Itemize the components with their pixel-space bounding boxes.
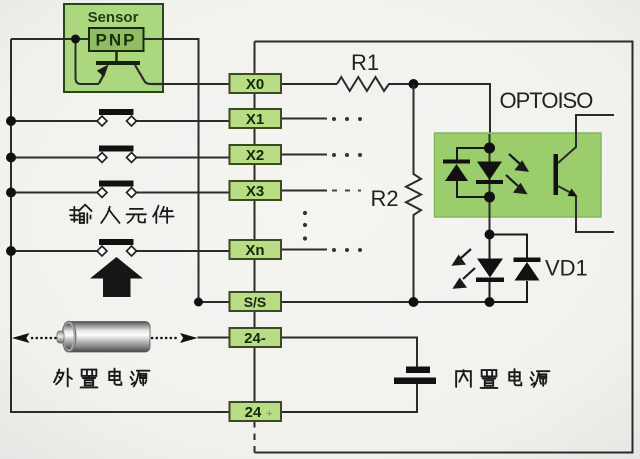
diode VD1 xyxy=(490,235,541,303)
svg-text:R1: R1 xyxy=(351,50,379,75)
node opto bottom xyxy=(484,192,495,203)
terminal box X3 xyxy=(230,181,282,200)
svg-text:OPTOISO: OPTOISO xyxy=(500,88,594,113)
terminal box Xn xyxy=(230,240,282,259)
wire X1 dots xyxy=(332,117,362,121)
node rail X2 xyxy=(6,153,16,163)
switch Sn Xn row xyxy=(11,239,230,256)
transistor Q1 sensor PNP xyxy=(96,50,163,84)
svg-text:+: + xyxy=(266,408,272,420)
wire R1 junction to optocoupler xyxy=(414,84,491,134)
svg-text:X3: X3 xyxy=(246,183,264,200)
label 内置电源 xyxy=(456,369,549,388)
wire PNP output to S/S rail xyxy=(144,39,230,302)
wire opto led branch xyxy=(489,134,491,235)
wire 24- row right to battery xyxy=(281,338,417,368)
LED light arrows xyxy=(454,249,476,288)
node R1 junction xyxy=(409,79,419,89)
svg-text:24-: 24- xyxy=(244,330,266,347)
node rail X3 xyxy=(6,188,16,198)
svg-text:S/S: S/S xyxy=(244,294,267,310)
wire Xn dots xyxy=(332,248,362,252)
wire X2 dots xyxy=(332,153,362,157)
switch S3 X3 row xyxy=(11,181,230,198)
optocoupler box U1 xyxy=(435,133,602,217)
label 输入元件 xyxy=(70,205,174,223)
wire X1 stub xyxy=(281,118,327,120)
node VD1 top xyxy=(485,230,495,240)
dotted lead left of battery xyxy=(32,337,56,340)
terminal box S/S xyxy=(230,292,282,311)
wire Xn stub xyxy=(281,249,327,251)
arrow to 24- terminal xyxy=(180,333,198,343)
terminal box X1 xyxy=(230,109,282,128)
node VD1 bottom xyxy=(485,297,495,307)
node ellipsis column xyxy=(303,211,307,241)
wire 24- left stub xyxy=(198,337,230,339)
terminal box X0 xyxy=(230,74,282,93)
battery B2 internal xyxy=(394,367,436,385)
svg-text:24: 24 xyxy=(245,404,262,421)
node R2 bottom junction xyxy=(409,297,419,307)
node S/S corner xyxy=(194,298,203,307)
svg-text:X2: X2 xyxy=(246,147,264,164)
sensor box xyxy=(64,4,163,92)
switch S1 X1 row xyxy=(11,109,230,126)
opto back-to-back LEDs xyxy=(443,148,503,197)
wire sensor supply xyxy=(11,38,89,40)
PNP box xyxy=(89,28,144,51)
wire X3 dashes xyxy=(332,190,361,192)
node rail X1 xyxy=(6,116,16,126)
terminal box X2 xyxy=(230,145,282,164)
wire X2 stub xyxy=(281,154,327,156)
arrow to left rail xyxy=(12,333,30,343)
terminal box 24 xyxy=(230,402,282,421)
dotted lead right of battery xyxy=(152,337,180,340)
PLC enclosure box xyxy=(255,42,633,453)
svg-text:X0: X0 xyxy=(246,76,264,93)
terminal box 24- xyxy=(230,328,282,347)
svg-text:Xn: Xn xyxy=(245,242,264,259)
opto light arrows xyxy=(506,154,527,193)
switch S2 X2 row xyxy=(11,146,230,163)
wire left rail xyxy=(11,39,230,412)
svg-text:R2: R2 xyxy=(371,186,399,211)
phototransistor Q2 xyxy=(554,115,615,232)
resistor R1 xyxy=(337,77,414,91)
wire X3 stub xyxy=(281,190,327,192)
svg-text:PNP: PNP xyxy=(96,31,137,50)
block arrow up xyxy=(90,257,143,297)
wire X0 row xyxy=(163,83,337,85)
wire battery to 24 row xyxy=(281,384,417,412)
svg-text:Sensor: Sensor xyxy=(88,9,139,26)
node rail Xn xyxy=(6,246,16,256)
node sensor supply junction xyxy=(71,35,80,44)
resistor R2 xyxy=(406,84,421,302)
svg-text:X1: X1 xyxy=(246,111,264,128)
battery B1 external cylinder xyxy=(57,321,150,352)
LED indicator D2 xyxy=(476,235,504,303)
wire sensor base loop xyxy=(76,39,100,84)
wire S/S row xyxy=(281,301,490,303)
label 外置电源 xyxy=(54,369,149,388)
svg-text:VD1: VD1 xyxy=(545,256,588,281)
node opto top xyxy=(484,143,495,154)
